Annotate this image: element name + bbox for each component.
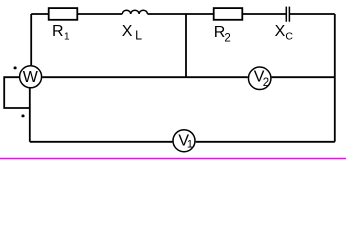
svg-text:L: L (135, 28, 142, 42)
svg-text:R: R (52, 23, 64, 40)
svg-text:2: 2 (224, 33, 230, 45)
svg-text:W: W (23, 69, 39, 86)
svg-text:C: C (285, 30, 293, 42)
svg-text:1: 1 (187, 139, 193, 151)
svg-text:X: X (275, 23, 286, 40)
svg-text:1: 1 (64, 31, 70, 42)
svg-text:X: X (122, 23, 133, 40)
svg-text:2: 2 (263, 77, 269, 89)
